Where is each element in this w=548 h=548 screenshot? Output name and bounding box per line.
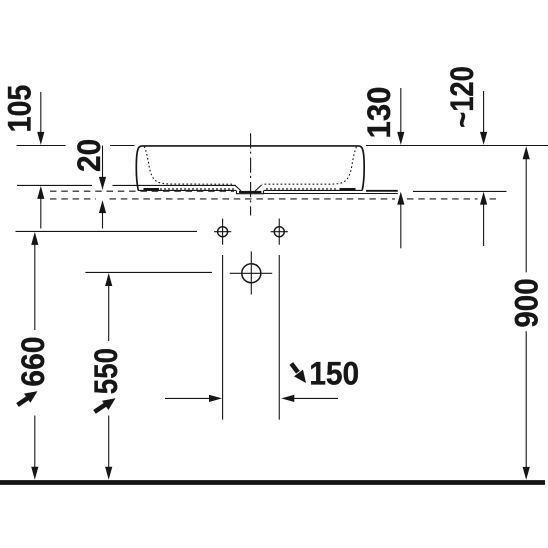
hidden seat line [160, 188, 338, 190]
dimension ~120 upper arrowhead [480, 132, 487, 145]
drain recess slopes [235, 185, 262, 191]
countertop surface line left [17, 184, 236, 186]
washbasin bottom edge right [264, 189, 363, 191]
rim reference line [17, 145, 548, 147]
faucet hole left [218, 227, 228, 237]
dimension 900 upper arrowhead [523, 146, 530, 159]
countertop hidden top dashed [50, 190, 234, 192]
svg-text:130: 130 [361, 87, 397, 139]
dimension 20 upper arrowhead [99, 177, 106, 190]
dimension 20 lower tail [102, 212, 104, 228]
svg-text:550: 550 [88, 348, 124, 394]
countertop hidden bottom dashed [50, 198, 500, 200]
countertop surface line right near basin [366, 190, 398, 192]
dimension 900 lower line [525, 331, 527, 468]
countertop surface line right [413, 190, 507, 192]
dimension 105 extension line [40, 92, 42, 133]
svg-text:150: 150 [309, 356, 359, 392]
svg-text:900: 900 [509, 278, 545, 327]
floor line [0, 480, 545, 485]
centerline [250, 133, 252, 215]
countertop lower edge right [264, 193, 398, 195]
overflow height reference line [85, 271, 212, 273]
overflow hole [242, 264, 261, 283]
svg-text:20: 20 [71, 139, 107, 172]
faucet hole left ticks [214, 219, 231, 245]
dimension ~120 lower tail [483, 204, 485, 246]
dimension 660 lower arrowhead [31, 467, 38, 480]
dimension ~120 lower arrowhead [480, 192, 487, 205]
adjustable arrow 550 [95, 405, 106, 412]
drain foot [237, 191, 264, 194]
dimension 150 right arrowhead [281, 395, 294, 402]
washbasin outline [136, 146, 364, 190]
svg-text:~120: ~120 [444, 66, 480, 128]
dimension 105 lower arrowhead [37, 186, 44, 199]
glaze foot right [340, 188, 356, 191]
adjustable arrow 660 [18, 398, 28, 405]
dimension 20 extension line [102, 146, 104, 178]
dimension 660 lower line [34, 416, 36, 468]
dimension 130 extension line [400, 88, 402, 133]
dimension 130 lower tail [400, 204, 402, 249]
faucet hole right extension line [278, 255, 280, 420]
dimension 550 upper arrowhead [105, 273, 112, 286]
drain hole vertical crosshair [250, 251, 252, 294]
washbasin bottom edge left [138, 189, 236, 191]
dimension 130 lower arrowhead [397, 192, 404, 205]
dimension 20 lower arrowhead [99, 200, 106, 213]
faucet hole right [274, 227, 284, 237]
dimension 550 lower arrowhead [105, 467, 112, 480]
dimension 105 upper arrowhead [37, 132, 44, 145]
dimension ~120 extension line [483, 91, 485, 133]
dimension 150 left arrowhead [209, 395, 222, 402]
faucet hole right ticks [271, 219, 288, 245]
glaze foot left [144, 188, 160, 191]
dimension 105 lower tail [40, 198, 42, 229]
svg-text:660: 660 [15, 336, 51, 386]
dimension 150 left line [165, 397, 210, 399]
dimension 550 lower line [108, 416, 110, 468]
inner bowl hidden contour [144, 146, 234, 184]
dimension 660 upper arrowhead [31, 232, 38, 245]
svg-text:105: 105 [2, 85, 38, 133]
dimension 550 upper line [108, 285, 110, 341]
dimension 150 right line [294, 397, 338, 399]
dimension 900 lower arrowhead [523, 467, 530, 480]
rim height reference line [16, 230, 198, 232]
adjustable arrow 150 [291, 364, 298, 373]
overflow hole crosshair [230, 272, 272, 274]
dimension 900 upper line [525, 158, 527, 272]
dimension 130 upper arrowhead [397, 132, 404, 145]
dimension 660 upper line [34, 244, 36, 330]
faucet hole left extension line [222, 255, 224, 420]
